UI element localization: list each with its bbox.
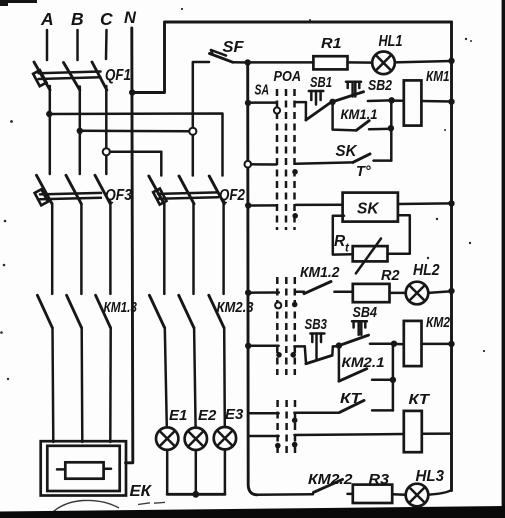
svg-text:КМ2: КМ2 — [426, 314, 451, 331]
node row3 right rail — [448, 200, 454, 206]
wire row4 mid — [295, 291, 304, 294]
svg-text:R1: R1 — [321, 35, 342, 52]
wire row3 to SK box — [296, 203, 343, 206]
heater element inside EK — [57, 462, 111, 478]
wire row6 left — [248, 412, 278, 415]
wire KM2.3 pole3 to E3 — [223, 328, 226, 427]
node row4 right rail — [448, 288, 454, 294]
node SB2 right — [388, 97, 394, 103]
selector SA row4 ring — [275, 302, 281, 308]
wire neutral N vertical — [126, 28, 133, 463]
wire A to QF2 pole3 — [49, 114, 222, 176]
button SB4 — [339, 305, 377, 346]
selector SA row6 dot — [292, 418, 298, 424]
circuit breaker QF3 — [35, 175, 133, 205]
svg-text:КМ2.2: КМ2.2 — [308, 471, 353, 488]
svg-text:E1: E1 — [169, 407, 187, 424]
svg-text:КМ1.3: КМ1.3 — [104, 300, 138, 316]
node N tap — [129, 89, 135, 95]
lamp E3 — [214, 406, 244, 449]
lamp E2 — [185, 407, 217, 450]
node SF drop circle — [189, 128, 196, 135]
wire QF3 pole2 lower — [80, 204, 83, 294]
selector SA row2 dot — [292, 169, 298, 175]
node KM1.1 right — [388, 125, 394, 131]
wire phase B middle — [79, 87, 82, 175]
contact SK thermal — [336, 143, 392, 180]
node SB1 right — [329, 99, 335, 105]
wire phase C middle — [105, 86, 108, 174]
wire row2 left — [251, 163, 277, 166]
svg-text:T°: T° — [356, 164, 371, 180]
svg-text:SK: SK — [336, 143, 359, 160]
svg-text:R2: R2 — [381, 267, 400, 284]
node C tap (ring) — [103, 148, 110, 155]
node row1 left rail — [245, 100, 251, 106]
stray arc mark bottom left — [47, 500, 165, 518]
svg-text:R3: R3 — [369, 471, 390, 488]
right control rail — [450, 22, 453, 491]
coil KT — [404, 392, 452, 452]
scan mark top left — [0, 0, 37, 6]
selector SA row5 dots — [276, 352, 296, 358]
wire phase C top — [105, 30, 108, 59]
selector SA dashed column — [277, 89, 295, 453]
contact KM2.2 — [308, 471, 353, 494]
node row2 left rail ring — [245, 161, 252, 168]
wire row3 left — [248, 204, 276, 207]
wire lamp bus — [167, 493, 225, 496]
node SB3 right — [336, 342, 342, 348]
wire E3 lower — [224, 449, 227, 494]
wire SF to left rail node — [233, 61, 248, 64]
wire row2 right — [295, 162, 353, 163]
svg-text:HL2: HL2 — [413, 262, 440, 279]
node A tap — [46, 111, 52, 117]
thermistor Rt — [333, 215, 410, 273]
circuit breaker QF2 — [149, 135, 246, 205]
wire row7 to KT coil — [294, 434, 403, 435]
button SB3 — [305, 317, 339, 364]
svg-text:QF2: QF2 — [219, 187, 245, 204]
contact KM1.2 — [300, 264, 353, 294]
selector SA row3 dot — [292, 213, 298, 219]
svg-text:A: A — [40, 9, 54, 29]
wire QF3 pole3 lower — [109, 204, 112, 294]
button SB2 — [333, 78, 392, 102]
svg-text:HL3: HL3 — [416, 468, 445, 485]
thermostat SK box — [343, 193, 398, 222]
contact KM2.3 — [149, 295, 253, 327]
wire KM1 junction vertical — [390, 100, 393, 160]
scan border bottom — [0, 506, 505, 518]
node KM2 right rail — [448, 341, 454, 347]
contact KM1.1 — [333, 102, 391, 131]
scan border right — [502, 0, 505, 511]
wire bottom row — [256, 493, 313, 496]
svg-text:SB1: SB1 — [310, 75, 332, 91]
resistor R2 — [353, 267, 406, 302]
svg-text:B: B — [71, 9, 84, 29]
node B tap — [77, 128, 83, 134]
wire phase B top — [76, 30, 79, 60]
node lamp bus — [192, 491, 199, 498]
wire SK box to right rail — [398, 202, 452, 205]
button SB1 — [306, 75, 332, 120]
wire KM2 junction vertical — [392, 344, 395, 411]
selector SA row7 dots — [275, 442, 298, 449]
svg-text:QF3: QF3 — [105, 187, 132, 204]
wire row1 right — [295, 101, 306, 104]
svg-text:SF: SF — [223, 39, 245, 56]
wire row5 left — [248, 345, 278, 348]
selector SA row1 circle — [274, 107, 280, 113]
wire KM2.3 pole1 to E1 — [165, 328, 167, 428]
resistor R3 — [353, 471, 406, 503]
wire row7 left — [248, 435, 278, 438]
svg-text:КМ1.2: КМ1.2 — [300, 264, 340, 281]
wire QF2 pole2 lower — [192, 204, 195, 294]
resistor R1 — [248, 35, 348, 69]
contact KT timed — [340, 391, 393, 412]
node row4 left rail — [245, 290, 251, 296]
heater EK box — [41, 441, 153, 500]
wire KM2.3 pole2 to E2 — [194, 328, 196, 428]
svg-text:КМ1.1: КМ1.1 — [341, 106, 378, 122]
svg-text:SB3: SB3 — [305, 317, 328, 333]
wire row1 left — [248, 101, 276, 104]
svg-text:SB4: SB4 — [353, 305, 378, 321]
wire E1 lower — [166, 450, 169, 495]
svg-text:QF1: QF1 — [105, 67, 131, 84]
svg-text:ЕК: ЕК — [130, 483, 153, 500]
lamp HL2 — [406, 262, 452, 304]
svg-text:КТ: КТ — [409, 392, 431, 408]
wire QF2 pole3 lower — [222, 204, 225, 294]
node SB4 right — [391, 341, 397, 347]
lamp HL3 — [406, 468, 452, 506]
node row5 left rail — [245, 343, 251, 349]
wire SB4 to KM2 junction — [370, 342, 394, 345]
wire row5 mid — [294, 345, 304, 348]
left control rail — [248, 63, 257, 495]
svg-text:КМ1: КМ1 — [426, 68, 450, 85]
wire QF3 pole1 lower — [51, 204, 54, 294]
wire row4 left — [248, 291, 279, 294]
dust specks — [0, 8, 485, 380]
node SF junction — [245, 59, 251, 65]
contact KM2.1 — [339, 346, 393, 382]
svg-text:E2: E2 — [198, 407, 217, 424]
wire QF2 pole1 lower — [163, 204, 166, 294]
svg-text:E3: E3 — [225, 406, 244, 423]
node HL1 right rail — [448, 58, 454, 64]
coil KM2 — [394, 314, 452, 366]
svg-text:N: N — [124, 9, 137, 27]
svg-text:SB2: SB2 — [368, 78, 392, 94]
wire KM1.3 pole3 to EK — [109, 328, 112, 442]
node KM1 right rail — [448, 99, 454, 105]
switch SF — [210, 39, 245, 62]
wire E2 lower — [195, 450, 198, 494]
circuit breaker QF1 — [33, 62, 131, 90]
wire row6 mid — [294, 411, 339, 414]
coil KM1 — [392, 68, 452, 126]
svg-text:POA: POA — [274, 68, 302, 85]
wire SB2 to KM1 junction — [368, 99, 392, 102]
svg-text:SA: SA — [255, 83, 270, 99]
svg-text:HL1: HL1 — [379, 33, 403, 50]
wire B to SF drop circle — [80, 130, 190, 133]
svg-text:КТ: КТ — [340, 391, 362, 407]
wire phase A middle — [49, 86, 52, 174]
wire SF drop vertical — [193, 62, 209, 135]
node row3 left rail — [245, 202, 251, 208]
node KM2.1 right — [390, 377, 396, 383]
svg-text:C: C — [100, 9, 113, 29]
wire KM1.3 pole1 to EK — [51, 328, 54, 442]
wire neutral link to top rail — [132, 22, 451, 93]
wire phase A top — [46, 30, 49, 60]
selector SA row4 dot — [292, 302, 298, 308]
svg-text:КМ2.1: КМ2.1 — [342, 354, 385, 370]
wire KM1.3 pole2 to EK — [80, 328, 83, 442]
svg-text:SK: SK — [357, 201, 380, 218]
lamp HL1 — [348, 33, 452, 74]
svg-text:КМ2.3: КМ2.3 — [217, 300, 254, 316]
lamp E1 — [156, 407, 187, 450]
wire C to QF2 pole1 — [110, 152, 161, 176]
contact KM1.3 — [37, 295, 137, 327]
